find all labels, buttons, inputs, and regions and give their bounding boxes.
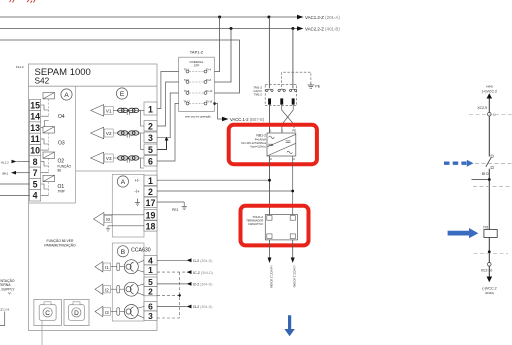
wire down from arrow <box>488 99 490 113</box>
A section divider <box>75 86 77 203</box>
arrow VAC2 <box>297 26 304 30</box>
arrow I2-2 <box>187 282 192 286</box>
dashed boundary 3 <box>473 186 510 188</box>
pin 15 <box>30 99 41 110</box>
CT row I2 <box>95 282 144 296</box>
arrow into pin 8 <box>12 160 17 164</box>
wire pin1 right <box>157 179 270 181</box>
wire below coil <box>488 238 490 263</box>
svg-text:4: 4 <box>33 191 38 201</box>
pin 11 <box>30 133 41 144</box>
CT row I1 <box>95 260 144 274</box>
svg-text:10: 10 <box>30 146 40 156</box>
svg-text:I1: I1 <box>105 265 109 270</box>
wire pin4 out <box>157 259 187 261</box>
svg-text:1: 1 <box>148 265 153 275</box>
wire: TAP row3 left to pin 3 <box>157 93 179 138</box>
svg-text:Vin=115-127/220Vca: Vin=115-127/220Vca <box>241 141 266 145</box>
svg-text:(+)VCC.2 (C606): (+)VCC.2 (C606) <box>269 266 273 289</box>
junction on line2 at x292.5 <box>291 27 294 30</box>
wire fuse2 cross to PE pin <box>282 105 294 128</box>
dashed link to PE <box>282 72 311 87</box>
svg-text:D: D <box>74 310 79 317</box>
TAP row 4 <box>183 100 213 105</box>
svg-text:3: 3 <box>148 133 153 143</box>
svg-text:4: 4 <box>148 256 153 266</box>
svg-text:FUNÇÃO 86 VER: FUNÇÃO 86 VER <box>47 238 74 243</box>
svg-text:U: U <box>293 157 295 161</box>
svg-text:TRIP: TRIP <box>58 190 65 194</box>
up arrow <box>487 93 493 98</box>
pin 1 <box>144 175 157 186</box>
svg-text:NB1-2: NB1-2 <box>256 133 266 137</box>
svg-text:(404): (404) <box>486 85 493 89</box>
junction pin2 wire <box>291 190 294 193</box>
ground mark pin17 <box>135 199 140 206</box>
wire pin2 right <box>157 190 293 192</box>
svg-text:CCA630: CCA630 <box>131 248 151 254</box>
junction on line2 at x231 <box>230 27 233 30</box>
contact O3 <box>41 127 55 151</box>
wire from pin 5 to left edge <box>0 183 30 185</box>
arrow VAC1 <box>297 15 304 19</box>
circle E <box>116 88 127 99</box>
wire pin2 dashed <box>157 294 180 296</box>
wire pin19 to I0 <box>104 214 144 216</box>
svg-text:14: 14 <box>30 112 40 122</box>
svg-text:15: 15 <box>30 100 40 110</box>
E section bottom <box>76 170 158 172</box>
B box <box>112 243 144 321</box>
svg-text:PARAMETRIZAÇÃO: PARAMETRIZAÇÃO <box>44 243 76 248</box>
svg-text:IC-2 (304-D): IC-2 (304-D) <box>193 271 213 275</box>
E pin 5 <box>144 144 157 155</box>
wire pin3 dashed <box>157 317 180 319</box>
pin 14 <box>30 111 41 122</box>
circle A <box>61 89 72 100</box>
CT row I3 <box>95 305 144 319</box>
ground under I0 <box>106 226 110 231</box>
wire: TAP row4 left to pin 6 <box>157 104 179 162</box>
pin 4 <box>30 190 41 201</box>
TAP row 3 <box>184 90 213 95</box>
switch 89 <box>491 155 493 157</box>
svg-text:U: U <box>270 157 272 161</box>
contact O2 <box>41 152 55 173</box>
dashed boundary 2 <box>475 162 512 164</box>
svg-text:BK1: BK1 <box>3 172 9 176</box>
svg-text:I2: I2 <box>105 288 109 293</box>
svg-text:5: 5 <box>33 179 38 189</box>
svg-text:O3: O3 <box>58 141 65 147</box>
svg-text:Y01: Y01 <box>483 225 489 229</box>
svg-text:I3: I3 <box>105 310 109 315</box>
terminal circle top <box>488 112 492 116</box>
svg-text:(-)VCC.2 (C606): (-)VCC.2 (C606) <box>293 266 297 288</box>
svg-text:B: B <box>121 249 125 256</box>
E pin 2 <box>144 121 157 132</box>
down arrow <box>488 266 490 277</box>
wire: bus line 1 <box>0 16 297 18</box>
wire MES bottom-left down <box>269 156 271 215</box>
arrow I1-2 <box>187 258 192 262</box>
connector C <box>34 299 62 325</box>
arrow I3-2 <box>187 305 192 309</box>
converter diagonals <box>267 134 296 147</box>
E pin 1 <box>144 102 157 115</box>
svg-text:I2-2 (304-D): I2-2 (304-D) <box>193 283 212 287</box>
svg-text:O4: O4 <box>58 114 65 120</box>
wire: TAP row2 left to pin 2 <box>157 82 179 126</box>
fuse 2 <box>280 98 283 104</box>
svg-text:VAC1.2-Z (201-A): VAC1.2-Z (201-A) <box>305 15 340 20</box>
red text remnant top-left 2 <box>27 0 35 3</box>
fuse terminal 3 <box>290 89 297 91</box>
svg-text:PE: PE <box>315 85 320 89</box>
AC sine top-left <box>269 136 275 139</box>
circle A <box>117 176 128 187</box>
arrow IC-2 <box>187 270 192 274</box>
svg-text:18: 18 <box>146 222 156 232</box>
junction pin1 wire <box>268 179 271 182</box>
svg-text:E: E <box>120 91 125 98</box>
A lower box <box>112 174 144 237</box>
wire TOLD right down <box>292 240 294 259</box>
wire: bus line 3 with bend down to TAP row3 <box>0 40 239 93</box>
circle B <box>117 246 128 257</box>
pin 2 <box>144 186 157 197</box>
svg-text:-/+: -/+ <box>134 189 140 194</box>
wire down to switch <box>488 116 490 157</box>
V1 row <box>91 105 144 126</box>
svg-text:PE: PE <box>292 129 296 133</box>
pin 10 <box>30 145 41 156</box>
junction at TAP row4 right <box>213 102 216 105</box>
wire pin17 to PE1 ground <box>157 201 184 203</box>
svg-text:A: A <box>64 92 69 99</box>
wire pin18 to I0 <box>108 225 144 227</box>
big blue down arrow <box>284 315 294 336</box>
svg-text:TA-4: TA-4 <box>206 68 212 71</box>
svg-text:I3-2 (304-D): I3-2 (304-D) <box>193 305 212 309</box>
V3 row <box>91 152 144 168</box>
dashed boundary 1 <box>469 114 512 116</box>
svg-text:TM1-2: TM1-2 <box>254 93 263 97</box>
junction diamond on common <box>178 294 181 298</box>
svg-text:6: 6 <box>148 157 153 167</box>
arrow down left <box>268 258 272 264</box>
svg-text:2: 2 <box>148 287 153 297</box>
pin 13 <box>30 122 41 133</box>
AC sine bottom-right <box>287 151 293 154</box>
wire: drop to TAP row1 <box>215 17 220 72</box>
svg-text:XC2-10: XC2-10 <box>481 269 493 273</box>
svg-text:13: 13 <box>30 123 40 133</box>
terminal circle bottom <box>488 263 492 267</box>
MES114 converter box <box>267 133 296 156</box>
junction <box>488 250 491 253</box>
pin 17 <box>144 197 157 208</box>
wire MES bottom-right down <box>292 156 294 215</box>
svg-text:VACC.1-2 (B07-B): VACC.1-2 (B07-B) <box>230 117 265 122</box>
wire fuse3 cross to pin2 <box>282 105 293 133</box>
wire fuse1 down to MES pin1 <box>269 105 271 133</box>
svg-text:A: A <box>121 179 126 186</box>
PE ground symbol <box>308 83 315 89</box>
wire from pin 4 to left edge <box>0 194 30 196</box>
svg-text:V3: V3 <box>106 156 112 161</box>
dashed boundary 4 <box>474 253 509 255</box>
wire pointer bottom-left <box>0 312 5 326</box>
pin 19 <box>144 210 157 221</box>
wire: TAP row1 left to pin 1 <box>157 72 179 109</box>
contact O4 <box>41 93 55 128</box>
wire: TAP row4 to VACC arrow <box>215 104 222 120</box>
wire below connector C <box>41 320 43 345</box>
red text remnant top-left 1 <box>10 0 15 3</box>
svg-text:2: 2 <box>148 122 153 132</box>
title divider <box>29 85 158 87</box>
svg-text:PE1: PE1 <box>172 208 179 212</box>
wire pin6 out <box>157 306 187 308</box>
E pin 6 <box>144 156 157 167</box>
svg-text:S42: S42 <box>35 76 50 86</box>
svg-text:2: 2 <box>148 187 153 197</box>
svg-text:7: 7 <box>33 168 38 178</box>
svg-text:(+)VCC.2: (+)VCC.2 <box>482 89 497 93</box>
pin 18 <box>144 221 157 232</box>
svg-text:C: C <box>45 310 50 317</box>
svg-text:F11-2: F11-2 <box>16 65 24 69</box>
svg-text:CAPACITIVO: CAPACITIVO <box>248 223 263 226</box>
I0 label box <box>104 215 112 222</box>
TAP row 2 <box>184 79 212 84</box>
svg-text:19: 19 <box>146 211 156 221</box>
A section bottom <box>29 202 76 204</box>
B pin 5 <box>144 277 157 286</box>
svg-text:TC-12: TC-12 <box>206 90 213 93</box>
E pin 3 <box>144 132 157 143</box>
svg-text:V-: V- <box>8 292 11 296</box>
svg-text:I0: I0 <box>106 217 110 222</box>
svg-text:V1: V1 <box>106 109 112 114</box>
svg-text:1: 1 <box>148 104 153 114</box>
connector D <box>64 299 89 325</box>
svg-text:+/-: +/- <box>134 178 140 183</box>
junction + stub left <box>488 178 491 181</box>
svg-text:3: 3 <box>148 311 153 321</box>
svg-text:XCZ (-) 9: XCZ (-) 9 <box>0 307 9 311</box>
fuse terminal 2 <box>278 89 285 91</box>
I0 arrow <box>94 212 104 225</box>
wire TOLD left down <box>269 240 271 259</box>
TOLD-2 box <box>265 215 297 240</box>
svg-text:8: 8 <box>33 157 38 167</box>
svg-text:P=140VA: P=140VA <box>255 137 266 141</box>
wire into pin 8 <box>17 161 30 163</box>
SEPAM outer box <box>29 64 158 331</box>
svg-text:(D404): (D404) <box>485 291 494 295</box>
dashed common bus vertical <box>179 272 181 318</box>
junction on line1 at x219.6 <box>218 16 221 19</box>
svg-text:I1-2 (304-D): I1-2 (304-D) <box>193 259 212 263</box>
coil Y01 <box>484 230 497 238</box>
blue dashed arrow <box>444 161 467 164</box>
box TAP1-Z <box>179 57 215 111</box>
wire pin5 out <box>157 283 187 285</box>
fuse 3 <box>292 98 295 104</box>
TOLD pin squares <box>267 216 272 221</box>
pin 5 <box>30 178 41 189</box>
solid blue arrow <box>448 228 479 238</box>
svg-text:Vout=110Vcc: Vout=110Vcc <box>250 145 266 149</box>
fuse terminal 1 <box>266 89 273 91</box>
wire: pin5 up-arrow link <box>157 140 167 149</box>
arrow VACC.1-2 <box>222 117 229 121</box>
svg-text:TAP1-Z: TAP1-Z <box>190 50 204 55</box>
svg-text:TA-16: TA-16 <box>206 100 213 103</box>
wire: drop to TAP row2 <box>215 29 232 83</box>
B pin 6 <box>144 302 157 311</box>
dashed box TM1-2 <box>265 84 297 105</box>
contact O1 <box>41 175 55 195</box>
TAP row 1 <box>184 68 212 73</box>
svg-text:1: 1 <box>148 176 153 186</box>
wire from pin 7 <box>16 172 30 174</box>
B pin 2 <box>144 287 157 296</box>
junction on line1 at x268.9 <box>267 16 270 19</box>
svg-text:TOLD-2: TOLD-2 <box>252 215 263 219</box>
svg-text:TA-8: TA-8 <box>206 79 212 82</box>
pin 8 <box>30 156 41 167</box>
B pin 4 <box>144 256 157 265</box>
DC mark top-right <box>286 141 291 142</box>
fuse 1 <box>268 98 271 104</box>
svg-text:86: 86 <box>58 168 62 172</box>
DC mark bottom-left <box>268 144 273 145</box>
svg-text:89 D: 89 D <box>482 172 489 176</box>
svg-text:XC2-9: XC2-9 <box>477 106 487 110</box>
svg-text:5: 5 <box>148 277 153 287</box>
svg-text:5: 5 <box>148 145 153 155</box>
arrow out of pin 7 <box>11 171 16 175</box>
svg-text:VAC2.2-Z (401-B): VAC2.2-Z (401-B) <box>305 26 340 31</box>
wire: drop to fuse 1 <box>268 17 270 88</box>
wire pin1 dashed common <box>157 271 187 273</box>
svg-text:AL1.2: AL1.2 <box>1 160 9 164</box>
wire below switch <box>488 169 490 230</box>
svg-text:6: 6 <box>148 302 153 312</box>
B pin 3 <box>144 311 157 320</box>
wire: drop to fuse 3 <box>292 29 294 89</box>
arrow down right <box>291 258 295 264</box>
V2 row <box>91 127 144 149</box>
svg-text:sem uso em operação: sem uso em operação <box>185 115 211 119</box>
svg-text:(-)VCC.2: (-)VCC.2 <box>482 287 496 291</box>
svg-text:STP: STP <box>194 64 200 68</box>
pin 7 <box>30 167 41 178</box>
svg-text:11: 11 <box>30 134 39 144</box>
svg-text:17: 17 <box>146 198 156 208</box>
svg-text:V2: V2 <box>106 131 112 136</box>
B pin 1 <box>144 265 157 274</box>
wire: bus line 2 <box>0 28 297 30</box>
